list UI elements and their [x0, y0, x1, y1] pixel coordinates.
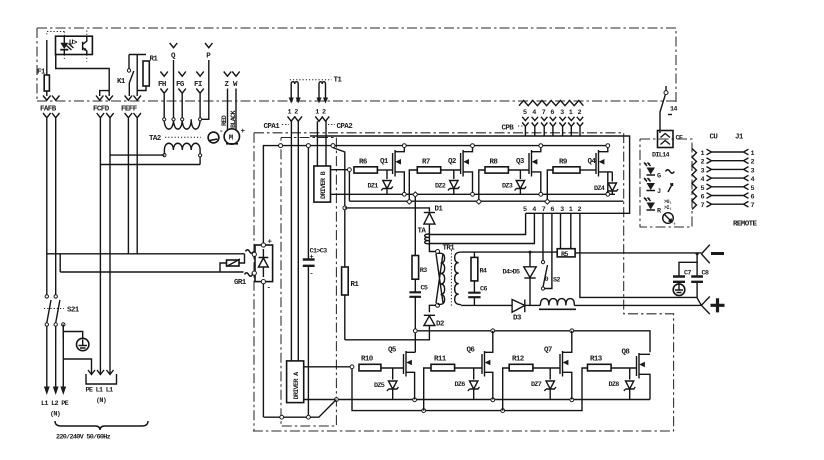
svg-text:-: -: [310, 271, 313, 279]
svg-text:>I₁: >I₁: [664, 205, 672, 211]
svg-text:FH: FH: [158, 81, 166, 89]
diode D1: [424, 206, 444, 233]
terminal arrows FE FF: [121, 96, 141, 120]
pin 5 wire to TA: [430, 213, 526, 234]
svg-text:R13: R13: [590, 356, 603, 364]
dotted off-board stubs of optocoupler: [47, 31, 87, 62]
svg-text:FAFB: FAFB: [40, 106, 57, 114]
resistor R1 bleeder: [333, 148, 359, 340]
label RED (rotated): [221, 115, 229, 126]
MOSFET Q7: [544, 331, 572, 400]
snubber R3: [412, 192, 427, 292]
resistor R8: [476, 159, 529, 205]
connector CPB zigzag: [502, 100, 584, 132]
cable CU J1: [701, 134, 755, 211]
pin 7 wire to S2: [542, 213, 544, 260]
svg-text:R11: R11: [434, 356, 447, 364]
svg-text:4: 4: [532, 206, 536, 214]
GR1 plus wire to DC bus: [263, 146, 264, 243]
LED G: [644, 163, 674, 181]
zener DZ5: [374, 368, 399, 400]
svg-text:C7: C7: [684, 270, 691, 278]
varistor across mains: [220, 254, 245, 272]
svg-text:TR1: TR1: [443, 245, 456, 253]
svg-text:1 2: 1 2: [315, 109, 326, 117]
central board dash-dot box: [250, 133, 674, 431]
resistor R11: [424, 356, 482, 411]
wire FD to TA2: [100, 120, 200, 165]
MOSFET Q6: [467, 331, 493, 400]
diode D3: [512, 300, 540, 323]
svg-text:R3: R3: [420, 267, 427, 275]
LED R: [644, 198, 672, 216]
MOSFET Q8: [622, 349, 651, 400]
resistor R7: [407, 159, 461, 205]
minus output wire: [575, 252, 701, 254]
svg-text:R4: R4: [480, 268, 487, 276]
connector CPA1: [264, 109, 303, 361]
connector CPA2: [315, 109, 353, 167]
arrows Z W fan supply: [224, 72, 240, 131]
svg-text:R6: R6: [359, 159, 368, 167]
diode D2: [345, 315, 445, 340]
svg-text:Q2: Q2: [448, 158, 457, 166]
clamp wire R1 to D1: [345, 208, 430, 212]
svg-text:1: 1: [569, 206, 573, 214]
output capacitor C7 with earth: [673, 252, 699, 295]
arrow FI: [194, 72, 204, 120]
pin 1 wire to shunt: [570, 213, 572, 248]
svg-text:K1: K1: [117, 78, 126, 86]
gate bus upper bank: [349, 200, 623, 202]
brace and mains rating text: [55, 421, 148, 442]
zener DZ8: [609, 368, 636, 400]
svg-text:FG: FG: [176, 81, 185, 89]
drain bus lower bank: [413, 329, 650, 352]
svg-text:Q8: Q8: [622, 349, 631, 357]
svg-text:L1 L2 PE: L1 L2 PE: [41, 400, 69, 408]
zener DZ4: [594, 172, 618, 194]
filter inductor L: [539, 299, 701, 310]
freewheel diodes D4>D5: [503, 252, 537, 305]
svg-text:DZ1: DZ1: [368, 183, 379, 191]
arrow P: [200, 43, 212, 119]
switch S21: [44, 295, 80, 327]
optocoupler U> box: [56, 36, 93, 54]
wire opto to FB node: [55, 55, 57, 69]
pin 4 wire to TA: [430, 213, 534, 243]
svg-text:S2: S2: [553, 277, 560, 285]
gate bus lower bank: [352, 367, 588, 413]
svg-text:R9: R9: [559, 159, 568, 167]
negative return bus: [264, 400, 337, 420]
secondary plus wire: [461, 304, 512, 306]
potentiometer: [663, 213, 676, 226]
thermal switch circle: [208, 132, 219, 143]
terminal strip PE L1 L1: [63, 155, 116, 405]
svg-text:Q3: Q3: [516, 158, 525, 166]
svg-text:R10: R10: [361, 356, 374, 364]
MOSFET Q3: [516, 144, 543, 197]
svg-text:DRIVER B: DRIVER B: [320, 171, 328, 199]
pin 6 wire to S2: [545, 213, 552, 288]
svg-text:220/240V 50/60Hz: 220/240V 50/60Hz: [56, 434, 111, 442]
svg-text:CPB: CPB: [502, 125, 515, 133]
svg-text:CPA1: CPA1: [264, 123, 281, 131]
svg-text:Q7: Q7: [544, 347, 552, 355]
remote control dash-dot box: [640, 139, 692, 227]
aux contact 14: [660, 86, 677, 133]
driver B output node: [331, 168, 352, 201]
MOSFET Q2: [448, 144, 474, 197]
shunt R5: [557, 249, 575, 259]
svg-text:R7: R7: [422, 159, 430, 167]
pin labels 5 4 7 6 3 1 2 mid: [523, 206, 582, 214]
zener DZ2: [435, 170, 460, 194]
svg-text:1 2: 1 2: [288, 109, 299, 117]
svg-text:R8: R8: [490, 159, 499, 167]
MOSFET Q4: [588, 144, 610, 197]
svg-text:S21: S21: [67, 307, 80, 315]
svg-text:Q4: Q4: [588, 158, 597, 166]
source bus upper bank: [331, 193, 616, 195]
svg-text:DZ5: DZ5: [374, 382, 385, 390]
DC plus bus: [265, 144, 608, 148]
transformer TR1: [436, 245, 462, 308]
svg-text:RED: RED: [221, 115, 229, 126]
TR1 primary bottom link: [429, 305, 435, 312]
svg-text:₀: ₀: [673, 220, 676, 226]
plus output terminal: [701, 297, 724, 315]
driver A box: [287, 361, 304, 403]
GR1 minus wire down: [262, 284, 264, 418]
transformer T1: [289, 77, 343, 104]
svg-text:Q6: Q6: [467, 347, 476, 355]
mains input arrows L1 L2 PE: [41, 326, 69, 418]
control board solid box: [310, 136, 630, 213]
svg-text:DIL14: DIL14: [652, 152, 670, 160]
fan motor M: [219, 128, 246, 144]
minus output terminal: [701, 245, 724, 264]
svg-text:DZ4: DZ4: [594, 185, 605, 193]
arrow Q: [170, 43, 178, 119]
svg-text:D1: D1: [435, 206, 444, 214]
svg-text:DZ3: DZ3: [502, 183, 513, 191]
svg-text:Q1: Q1: [380, 158, 389, 166]
svg-text:U>: U>: [69, 40, 78, 48]
damper C6: [468, 286, 487, 306]
arrow FG: [176, 72, 186, 120]
svg-text:DZ2: DZ2: [435, 183, 446, 191]
svg-text:CF: CF: [676, 135, 683, 143]
svg-text:R5: R5: [561, 251, 568, 259]
svg-text:14: 14: [670, 106, 677, 114]
svg-text:DZ6: DZ6: [455, 381, 466, 389]
transformer TA2 secondary: [163, 143, 202, 164]
driver B box: [314, 166, 331, 202]
remote box pin zigzag: [692, 149, 697, 210]
svg-text:C6: C6: [480, 286, 487, 294]
svg-text:-: -: [219, 128, 223, 136]
terminal arrows FA FB: [40, 96, 60, 120]
svg-text:CPA2: CPA2: [337, 123, 354, 131]
driver module inner dash-dot box: [281, 138, 336, 427]
zener DZ1: [368, 170, 393, 194]
svg-text:T1: T1: [334, 77, 343, 85]
svg-text:Q5: Q5: [388, 347, 397, 355]
bridge rectifier GR1: [234, 239, 273, 293]
svg-text:FCFD: FCFD: [93, 106, 110, 114]
resistor R12: [503, 356, 560, 411]
cable wires with chevrons: [707, 149, 749, 207]
svg-text:R1: R1: [150, 56, 159, 64]
svg-text:J1: J1: [735, 134, 744, 142]
boundary top band dash-dot: [37, 28, 676, 103]
output capacitor C8: [691, 262, 709, 297]
svg-text:R1: R1: [351, 281, 360, 289]
svg-text:DZ7: DZ7: [531, 381, 542, 389]
svg-text:FEFF: FEFF: [121, 106, 138, 114]
svg-text:4: 4: [532, 109, 536, 117]
resistor R6: [354, 159, 393, 174]
arrow FH: [158, 72, 168, 120]
earth symbol at S21: [63, 325, 89, 351]
driver A gate output: [304, 365, 354, 369]
LED J: [644, 178, 673, 196]
svg-text:REMOTE: REMOTE: [733, 221, 758, 229]
resistor R10: [359, 356, 404, 371]
current transformer TA: [418, 228, 436, 252]
svg-text:(N): (N): [50, 411, 60, 419]
CPB pin chevrons and stubs: [522, 117, 583, 136]
svg-text:D2: D2: [436, 321, 445, 329]
relay contact K1 with resistor R1: [117, 55, 146, 97]
zener DZ3: [502, 170, 526, 194]
svg-text:C5: C5: [421, 285, 428, 293]
mains feed wires to rectifier: [47, 120, 245, 273]
svg-text:FI: FI: [194, 81, 202, 89]
fuse F1: [37, 40, 49, 96]
svg-text:PE L1 L1: PE L1 L1: [86, 387, 114, 395]
damper R4: [471, 252, 487, 292]
svg-text:(N): (N): [96, 397, 106, 405]
terminal arrows FC FD: [93, 96, 114, 120]
svg-text:DRIVER A: DRIVER A: [293, 371, 301, 400]
resistor R1 (inrush): [137, 56, 158, 91]
MOSFET Q5: [388, 347, 415, 400]
svg-text:-: -: [267, 285, 271, 293]
svg-text:BLACK: BLACK: [230, 109, 238, 128]
svg-text:TA2: TA2: [149, 135, 162, 143]
svg-text:R12: R12: [512, 356, 525, 364]
source bus lower bank: [336, 398, 650, 402]
svg-text:CU: CU: [710, 134, 719, 142]
secondary minus wire: [461, 251, 557, 254]
choke squiggles at GR1 input: [245, 250, 255, 277]
pin 2 sense wire to plus output: [580, 213, 702, 305]
pin 3 wire to shunt: [560, 213, 562, 248]
svg-text:GR1: GR1: [234, 279, 247, 287]
svg-text:D3: D3: [513, 315, 522, 323]
transformer TA2 primary: [149, 118, 202, 143]
switch S2: [541, 261, 560, 291]
resistor R9: [545, 159, 596, 205]
TA2 core dotted: [165, 136, 201, 138]
zener DZ7: [531, 368, 556, 400]
svg-text:D4>D5: D4>D5: [503, 269, 521, 277]
connector CF DIL14: [652, 131, 683, 160]
resistor R13: [588, 356, 637, 371]
label REMOTE: [733, 221, 758, 229]
label BLACK (rotated): [230, 109, 238, 128]
MOSFET Q1: [380, 144, 406, 197]
svg-text:1: 1: [569, 109, 573, 117]
snubber C5: [409, 285, 427, 353]
wires FA FB down to switch: [47, 120, 56, 295]
wire FB loop to FC FD: [56, 55, 109, 96]
svg-text:DZ8: DZ8: [609, 381, 620, 389]
capacitor C1>C3: [303, 148, 327, 418]
zener DZ6: [455, 368, 480, 400]
driver A return: [304, 398, 339, 402]
